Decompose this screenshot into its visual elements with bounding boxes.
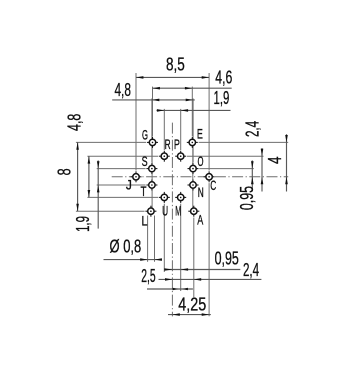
svg-text:T: T [141,183,147,199]
pin T [146,180,157,191]
wire G/E row extension left [76,141,146,143]
wire S column extension up [151,98,153,162]
svg-text:0,95: 0,95 [237,186,257,210]
pin L [145,206,156,217]
svg-text:P: P [174,136,180,152]
pin M [175,192,186,203]
dimension 4 right line [286,134,288,191]
wire R column extension up [163,109,165,150]
svg-text:4,25: 4,25 [178,294,206,314]
pin G [147,137,158,148]
wire U column extension down [163,204,165,272]
dimension 2,4 bottom line [147,288,193,290]
wire R/P row extension right [187,155,264,157]
wire L pin right tangent extension [154,216,156,262]
svg-text:4,8: 4,8 [65,114,85,131]
svg-text:O: O [198,153,204,169]
wire L pin left tangent extension [147,216,149,262]
svg-text:8,5: 8,5 [166,55,185,75]
wire column spine G-S-T-L [151,142,153,211]
wire U/M row extension left [87,196,158,198]
svg-text:4: 4 [265,157,285,165]
horizontal centerline [112,176,289,178]
svg-text:R: R [165,136,171,152]
pin S [146,163,157,174]
pin O [188,163,199,174]
svg-text:2,4: 2,4 [243,121,263,137]
svg-text:C: C [210,177,216,193]
wire L/A row extension left [76,210,145,212]
dimension 0,95 right line [251,160,253,191]
dimension 4,6 line [153,87,232,89]
svg-text:8: 8 [55,168,75,175]
dimension 4,25 line [168,314,211,316]
pin A [188,206,199,217]
pin N [188,180,199,191]
dimension 2,5 bottom line [159,278,262,280]
pin P [175,151,186,162]
wire S/O row extension right [199,168,254,170]
wire column spine E-O-N-A [192,142,194,211]
svg-text:N: N [198,184,204,200]
wire E column extension up [191,87,193,137]
svg-text:U: U [162,203,168,219]
vertical centerline [171,123,173,317]
dimension 1,9 left line [97,160,99,228]
pin R [159,151,170,162]
dimension 8,5 line [136,76,209,78]
wire O column extension up [192,98,194,162]
wire C column extension down [208,183,210,316]
pin C [204,171,215,182]
dimension 4,8 left line [88,156,90,197]
svg-text:2,5: 2,5 [141,266,155,286]
dimension 1,9 top line [157,109,231,111]
dimension 2,4 right line [261,148,263,191]
pin E [187,137,198,148]
wire C column extension up [208,73,210,171]
pin J [131,171,142,182]
wire M column extension down [180,204,182,291]
svg-text:1,9: 1,9 [73,216,93,232]
wire T/N row extension left [97,184,146,186]
wire G/E row extension right [199,141,289,143]
wire A column extension down [193,218,195,298]
svg-text:2,4: 2,4 [243,260,259,280]
dimension 0,95 bottom line [164,269,240,271]
svg-text:M: M [175,202,181,218]
svg-text:G: G [142,127,148,143]
wire P column extension up [180,109,182,150]
svg-text:Ø 0,8: Ø 0,8 [110,237,142,257]
dimension 4,8 top line [112,99,195,101]
pin U [159,192,170,203]
dimension diameter 0,8 line [104,259,163,261]
svg-text:J: J [126,176,132,192]
wire G column extension up [152,87,154,137]
wire R/P row extension left [87,155,158,157]
svg-text:E: E [197,126,203,142]
svg-text:4,8: 4,8 [114,80,131,100]
svg-text:S: S [142,153,148,169]
svg-text:A: A [197,212,203,228]
svg-text:0,95: 0,95 [215,248,239,268]
dimension 8 left line [77,142,79,211]
svg-text:4,6: 4,6 [215,67,232,87]
wire J column extension up [135,73,137,171]
svg-text:L: L [142,213,148,229]
wire S/O row extension left [97,168,146,170]
svg-text:1,9: 1,9 [214,88,230,108]
